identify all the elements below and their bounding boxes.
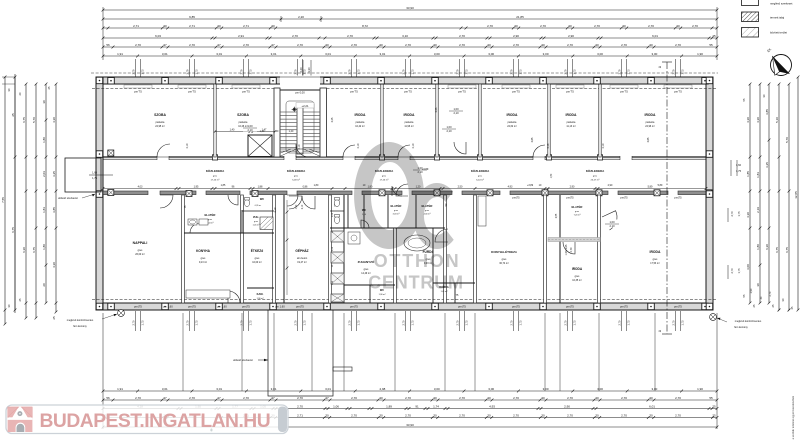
svg-text:3,00: 3,00: [651, 387, 657, 391]
svg-text:pm'75: pm'75: [674, 89, 682, 93]
svg-text:1,75: 1,75: [92, 177, 97, 180]
svg-text:5,70: 5,70: [32, 117, 36, 123]
svg-text:1,40: 1,40: [230, 128, 235, 131]
svg-text:6,75: 6,75: [785, 247, 789, 253]
svg-text:IRODA: IRODA: [404, 113, 415, 117]
svg-text:pm'75: pm'75: [242, 89, 250, 93]
svg-text:20: 20: [42, 283, 46, 287]
svg-text:2,70: 2,70: [570, 247, 573, 252]
svg-text:3,85: 3,85: [647, 137, 650, 142]
svg-text:91: 91: [415, 404, 419, 408]
svg-text:12,85: 12,85: [794, 191, 798, 199]
svg-text:IRODA: IRODA: [355, 113, 366, 117]
svg-text:®: ®: [210, 428, 213, 433]
svg-text:4,03: 4,03: [138, 185, 143, 188]
svg-text:3,01: 3,01: [325, 387, 331, 391]
svg-text:1,85: 1,85: [221, 184, 226, 187]
svg-text:fém kémény: fém kémény: [73, 325, 87, 328]
compass: [771, 55, 792, 76]
left dimension columns: [4, 77, 6, 324]
eaves dashed lines: [92, 88, 717, 90]
svg-text:1,75: 1,75: [357, 320, 361, 326]
svg-text:SZOBA: SZOBA: [154, 113, 166, 117]
svg-text:1,75: 1,75: [573, 320, 577, 326]
columns on outer walls: [108, 78, 115, 85]
svg-text:pm|75: pm|75: [674, 196, 682, 200]
svg-text:ELőTÉR: ELőTÉR: [572, 204, 583, 209]
svg-text:2,10: 2,10: [446, 129, 452, 133]
svg-text:előtető szerkezet: előtető szerkezet: [58, 196, 78, 200]
left entry porch: [65, 158, 101, 192]
svg-text:30: 30: [595, 43, 599, 47]
top wall extension dims: [135, 59, 137, 77]
svg-text:5,70: 5,70: [785, 137, 789, 143]
svg-text:30: 30: [433, 43, 437, 47]
svg-text:2,50: 2,50: [458, 185, 463, 188]
right dimension columns: [749, 84, 751, 303]
svg-text:1,40: 1,40: [289, 130, 294, 133]
svg-text:1,83: 1,83: [756, 172, 760, 178]
svg-text:4,93: 4,93: [489, 404, 495, 408]
svg-text:1,83: 1,83: [42, 207, 46, 213]
svg-text:gres: gres: [502, 258, 507, 261]
svg-text:3,01: 3,01: [162, 387, 168, 391]
svg-text:37: 37: [163, 43, 167, 47]
door arcs middle/bottom: [160, 195, 173, 208]
svg-text:6,01: 6,01: [652, 34, 658, 38]
svg-text:25: 25: [712, 413, 716, 417]
svg-text:termett talaj: termett talaj: [770, 16, 784, 20]
svg-text:4,93: 4,93: [508, 185, 513, 188]
svg-text:2,70: 2,70: [510, 320, 514, 326]
svg-text:30: 30: [541, 43, 545, 47]
svg-text:30: 30: [514, 24, 518, 28]
svg-text:5,10: 5,10: [775, 117, 779, 123]
steel columns on corridor wall: [186, 191, 192, 197]
svg-text:25: 25: [52, 316, 56, 320]
svg-text:3,01: 3,01: [216, 52, 222, 56]
svg-text:pm|75: pm|75: [134, 305, 142, 309]
svg-text:2,79: 2,79: [618, 69, 622, 75]
svg-text:4,30: 4,30: [746, 212, 750, 218]
svg-text:2,70: 2,70: [487, 24, 493, 28]
svg-text:30: 30: [756, 283, 760, 287]
svg-text:3,01: 3,01: [162, 52, 168, 56]
svg-text:2,79: 2,79: [132, 69, 136, 75]
svg-text:meglévő kontízómentes: meglévő kontízómentes: [67, 319, 94, 322]
svg-text:pm'75: pm'75: [512, 89, 520, 93]
svg-text:30: 30: [379, 396, 383, 400]
svg-text:2,70: 2,70: [243, 43, 249, 47]
svg-text:gres: gres: [138, 249, 143, 252]
svg-text:1,36 m²: 1,36 m²: [257, 297, 264, 300]
svg-text:2,90: 2,90: [568, 34, 574, 38]
svg-text:1,75: 1,75: [681, 320, 685, 326]
svg-text:bővített terület: bővített terület: [770, 31, 787, 35]
svg-text:1,40: 1,40: [260, 130, 265, 133]
svg-text:30: 30: [622, 24, 626, 28]
svg-text:11,13 m²: 11,13 m²: [566, 125, 575, 128]
svg-text:IRODA: IRODA: [645, 113, 656, 117]
svg-text:6,30: 6,30: [765, 244, 769, 250]
svg-text:gres: gres: [364, 268, 369, 271]
svg-text:2,70: 2,70: [405, 396, 411, 400]
svg-text:3,00: 3,00: [434, 387, 440, 391]
svg-text:1,75: 1,75: [357, 69, 361, 75]
svg-text:1,00: 1,00: [453, 107, 459, 111]
svg-text:1,75: 1,75: [465, 69, 469, 75]
svg-text:21,85: 21,85: [516, 15, 524, 19]
svg-text:4,30: 4,30: [52, 117, 56, 123]
svg-text:1,06: 1,06: [333, 404, 339, 408]
svg-text:2,10: 2,10: [453, 111, 459, 115]
svg-text:30: 30: [325, 413, 329, 417]
svg-text:meglévő kontízómentes: meglévő kontízómentes: [735, 320, 762, 323]
svg-text:1,00: 1,00: [247, 124, 253, 128]
svg-text:30: 30: [568, 24, 572, 28]
svg-text:17,23 m²: 17,23 m²: [380, 179, 389, 182]
svg-text:2,70: 2,70: [189, 396, 195, 400]
svg-text:37: 37: [325, 396, 329, 400]
svg-text:1,90: 1,90: [697, 387, 703, 391]
svg-text:ÉTKEZő: ÉTKEZő: [251, 248, 263, 253]
svg-text:30: 30: [487, 396, 491, 400]
corridor double door: [289, 196, 302, 209]
svg-text:3,85: 3,85: [765, 109, 769, 115]
svg-text:2,70: 2,70: [648, 24, 654, 28]
svg-text:2,70: 2,70: [402, 320, 406, 326]
svg-text:5,48 m²: 5,48 m²: [292, 179, 300, 182]
svg-text:8,72: 8,72: [362, 24, 368, 28]
svg-text:1,75: 1,75: [627, 69, 631, 75]
svg-text:7,20 m²: 7,20 m²: [574, 214, 581, 217]
svg-text:parketta: parketta: [405, 121, 414, 124]
svg-text:1,88: 1,88: [258, 185, 263, 188]
svg-text:25,27 m²: 25,27 m²: [591, 179, 600, 182]
svg-text:2,79: 2,79: [348, 69, 352, 75]
svg-text:3,30: 3,30: [307, 67, 311, 73]
svg-text:3,85: 3,85: [52, 207, 56, 213]
svg-text:2,70: 2,70: [132, 320, 136, 326]
svg-text:30: 30: [487, 413, 491, 417]
svg-text:2,70: 2,70: [189, 43, 195, 47]
svg-text:1,75: 1,75: [465, 320, 469, 326]
bottom dimension rows: [103, 390, 717, 392]
svg-text:1,75: 1,75: [141, 69, 145, 75]
svg-text:pm|75: pm|75: [458, 305, 466, 309]
svg-text:2,90: 2,90: [513, 34, 519, 38]
svg-text:6,01: 6,01: [649, 404, 655, 408]
svg-text:+2,21: +2,21: [301, 104, 309, 108]
watermark OC: [354, 142, 464, 293]
svg-text:3,00: 3,00: [543, 52, 549, 56]
chimney left: [118, 310, 125, 317]
svg-text:25: 25: [712, 34, 716, 38]
svg-text:GÉPHÁZ: GÉPHÁZ: [295, 248, 308, 253]
svg-text:2,20: 2,20: [299, 67, 303, 73]
svg-text:1,75: 1,75: [141, 320, 145, 326]
top dimension rows: [103, 9, 717, 11]
svg-text:2,10: 2,10: [357, 143, 360, 148]
svg-text:pm|75: pm|75: [188, 305, 196, 309]
svg-text:3,00: 3,00: [488, 387, 494, 391]
svg-text:1,90: 1,90: [697, 52, 703, 56]
svg-text:ELőTÉR: ELőTÉR: [391, 203, 402, 208]
svg-text:1,75: 1,75: [249, 320, 253, 326]
svg-text:30: 30: [487, 43, 491, 47]
svg-text:2,70: 2,70: [459, 396, 465, 400]
svg-text:30: 30: [595, 413, 599, 417]
svg-text:pm|75: pm|75: [566, 196, 574, 200]
building outer walls: [96, 77, 713, 84]
svg-text:3,00: 3,00: [434, 52, 440, 56]
svg-text:4,30 m²: 4,30 m²: [424, 213, 431, 216]
svg-text:pm'75: pm'75: [404, 89, 412, 93]
svg-text:2,98: 2,98: [379, 387, 385, 391]
svg-text:10,35 m²: 10,35 m²: [572, 279, 582, 282]
shaft under szoba2: [248, 135, 272, 157]
svg-text:30: 30: [379, 413, 383, 417]
svg-text:56: 56: [106, 43, 110, 47]
svg-text:gres: gres: [201, 257, 206, 260]
svg-text:WC: WC: [260, 197, 264, 201]
svg-text:3,01: 3,01: [379, 52, 385, 56]
svg-text:sim.beton: sim.beton: [297, 257, 308, 260]
svg-text:6,75: 6,75: [11, 227, 15, 233]
svg-text:2,79: 2,79: [672, 69, 676, 75]
svg-text:6,75: 6,75: [32, 247, 36, 253]
svg-text:3,01: 3,01: [216, 387, 222, 391]
logo bar budapest.ingatlan.hu: [6, 405, 288, 434]
svg-text:2,70: 2,70: [351, 413, 357, 417]
svg-text:pm'75: pm'75: [566, 89, 574, 93]
svg-text:+3,89: +3,89: [527, 184, 534, 187]
svg-text:0,95 m²: 0,95 m²: [255, 204, 262, 207]
door arcs top rooms: [157, 144, 170, 157]
svg-text:1,80: 1,80: [42, 137, 46, 143]
svg-text:10,42 m²: 10,42 m²: [355, 125, 365, 128]
svg-text:30: 30: [433, 396, 437, 400]
svg-text:25: 25: [712, 404, 716, 408]
svg-text:10,00 m²: 10,00 m²: [252, 261, 262, 264]
svg-text:pm'75: pm'75: [188, 89, 196, 93]
svg-text:1,89: 1,89: [386, 404, 392, 408]
svg-text:30: 30: [649, 396, 653, 400]
top row interior walls: [214, 84, 216, 157]
svg-text:6,75: 6,75: [775, 247, 779, 253]
svg-text:30: 30: [217, 24, 221, 28]
svg-text:pm'75: pm'75: [620, 89, 628, 93]
svg-text:2,70: 2,70: [348, 320, 352, 326]
svg-text:pm'75: pm'75: [350, 89, 358, 93]
svg-text:SZOBA: SZOBA: [237, 113, 249, 117]
svg-text:1,60: 1,60: [92, 172, 97, 175]
svg-text:30,74 m²: 30,74 m²: [499, 262, 509, 265]
svg-text:pm|75: pm|75: [242, 305, 250, 309]
svg-text:1,80: 1,80: [551, 173, 553, 178]
svg-text:30: 30: [271, 24, 275, 28]
svg-text:30: 30: [163, 24, 167, 28]
svg-text:30: 30: [379, 43, 383, 47]
svg-text:CENTRUM: CENTRUM: [368, 273, 464, 293]
svg-text:1,75: 1,75: [303, 320, 307, 326]
svg-text:1,75: 1,75: [411, 69, 415, 75]
svg-text:2,79: 2,79: [456, 69, 460, 75]
svg-text:parketta: parketta: [156, 121, 165, 124]
svg-text:OTTHON: OTTHON: [374, 251, 461, 271]
svg-text:1,75: 1,75: [736, 169, 742, 173]
svg-text:2,85: 2,85: [556, 213, 558, 218]
svg-text:22,95 m²: 22,95 m²: [155, 125, 165, 128]
svg-text:ZUH.: ZUH.: [253, 215, 259, 219]
svg-text:2,70: 2,70: [675, 396, 681, 400]
svg-text:3,85: 3,85: [531, 137, 534, 142]
svg-text:2,70: 2,70: [567, 43, 573, 47]
svg-text:2,79: 2,79: [186, 69, 190, 75]
svg-text:2,70: 2,70: [594, 24, 600, 28]
svg-text:parketta: parketta: [239, 121, 248, 124]
svg-text:IRODA: IRODA: [572, 267, 583, 271]
svg-text:1,00+0,65: 1,00+0,65: [565, 244, 568, 255]
svg-text:gres: gres: [575, 211, 579, 213]
svg-text:2,10: 2,10: [547, 143, 550, 148]
svg-text:ELőTÉR: ELőTÉR: [205, 212, 216, 217]
svg-text:KÖZLEKEDő: KÖZLEKEDő: [287, 168, 306, 173]
svg-text:3,25: 3,25: [765, 162, 769, 168]
svg-text:1,80: 1,80: [42, 244, 46, 250]
svg-text:2,70: 2,70: [540, 24, 546, 28]
svg-text:4,30: 4,30: [746, 117, 750, 123]
svg-text:gres: gres: [208, 219, 212, 221]
svg-text:1,75: 1,75: [519, 320, 523, 326]
svg-text:3,01: 3,01: [325, 52, 331, 56]
svg-text:ZUHANYZÓ: ZUHANYZÓ: [358, 259, 375, 264]
svg-text:2,70: 2,70: [621, 43, 627, 47]
svg-text:2,70: 2,70: [135, 396, 141, 400]
svg-text:3,00: 3,00: [597, 387, 603, 391]
svg-text:1,00: 1,00: [609, 220, 615, 224]
bottom canopy: [268, 310, 333, 396]
svg-text:1,91: 1,91: [117, 387, 123, 391]
svg-text:7,55: 7,55: [1, 197, 5, 203]
svg-text:IRODA: IRODA: [507, 113, 518, 117]
svg-text:1,75: 1,75: [627, 320, 631, 326]
svg-text:2,79: 2,79: [564, 69, 568, 75]
svg-text:2,70: 2,70: [135, 43, 141, 47]
svg-text:4,30: 4,30: [52, 262, 56, 268]
svg-text:2,70: 2,70: [675, 413, 681, 417]
svg-text:1,00: 1,00: [446, 125, 452, 129]
svg-text:6,03: 6,03: [155, 34, 161, 38]
svg-text:2,70: 2,70: [672, 320, 676, 326]
svg-text:KAM.: KAM.: [257, 292, 264, 296]
svg-text:NAPPALI: NAPPALI: [133, 241, 148, 245]
svg-text:11,96 m²: 11,96 m²: [404, 125, 413, 128]
svg-text:2,70: 2,70: [297, 396, 303, 400]
svg-text:30: 30: [676, 24, 680, 28]
svg-text:1,45 m²: 1,45 m²: [253, 224, 260, 227]
svg-text:pm 1,60: pm 1,60: [275, 305, 285, 309]
svg-text:3,00: 3,00: [651, 52, 657, 56]
legend: [742, 0, 759, 6]
svg-text:2,70: 2,70: [459, 413, 465, 417]
svg-text:3,00: 3,00: [543, 387, 549, 391]
svg-text:56: 56: [106, 396, 110, 400]
svg-text:IRODA: IRODA: [566, 113, 577, 117]
svg-text:gres: gres: [575, 275, 580, 278]
svg-text:1,75: 1,75: [195, 320, 199, 326]
logo house icon: [8, 407, 33, 432]
svg-text:3,01: 3,01: [271, 387, 277, 391]
svg-text:pm|75: pm|75: [350, 305, 358, 309]
svg-text:2,10: 2,10: [274, 207, 277, 212]
svg-text:2,79: 2,79: [294, 69, 298, 75]
svg-text:3,25: 3,25: [52, 171, 56, 177]
planned wall hatched: [548, 238, 600, 242]
svg-text:2,70: 2,70: [567, 413, 573, 417]
staircase: [280, 76, 320, 86]
svg-text:37: 37: [217, 396, 221, 400]
svg-text:2,70: 2,70: [564, 320, 568, 326]
svg-text:parketta: parketta: [567, 121, 576, 124]
svg-text:2,70: 2,70: [730, 211, 734, 217]
svg-text:2,19: 2,19: [756, 207, 760, 213]
svg-text:meglévő szerkezet: meglévő szerkezet: [770, 2, 793, 6]
svg-text:pm|75: pm|75: [512, 305, 520, 309]
svg-text:26,00 m²: 26,00 m²: [135, 253, 145, 256]
corridor walls: [103, 156, 706, 158]
svg-text:KÖZLEKEDő: KÖZLEKEDő: [471, 168, 490, 173]
svg-text:30: 30: [42, 100, 46, 104]
svg-text:19,47 m²: 19,47 m²: [297, 261, 307, 264]
svg-text:2,70: 2,70: [769, 291, 772, 296]
svg-text:30: 30: [649, 413, 653, 417]
svg-text:33,90: 33,90: [406, 423, 414, 427]
svg-text:KÖZLEKEDő: KÖZLEKEDő: [206, 168, 225, 173]
svg-text:2,10: 2,10: [609, 224, 615, 228]
svg-text:2,70: 2,70: [621, 413, 627, 417]
svg-text:3,00: 3,00: [746, 264, 750, 270]
svg-text:2,70: 2,70: [621, 396, 627, 400]
svg-text:1,75: 1,75: [195, 69, 199, 75]
svg-text:2,70: 2,70: [459, 34, 465, 38]
svg-text:17,25 m²: 17,25 m²: [211, 179, 220, 182]
svg-text:1,91: 1,91: [117, 52, 123, 56]
svg-text:parketta: parketta: [646, 121, 655, 124]
svg-text:gres: gres: [254, 221, 258, 223]
svg-text:a szobák területei együtt keze: a szobák területei együtt kezelendőek: [791, 395, 795, 439]
svg-text:pm|75: pm|75: [512, 196, 520, 200]
svg-text:30: 30: [649, 43, 653, 47]
svg-text:2,70: 2,70: [347, 34, 353, 38]
svg-text:2,70: 2,70: [405, 413, 411, 417]
svg-text:2,90: 2,90: [570, 185, 575, 188]
svg-text:30: 30: [541, 413, 545, 417]
svg-text:BUDAPEST.INGATLAN.HU: BUDAPEST.INGATLAN.HU: [40, 411, 271, 432]
svg-text:37: 37: [271, 396, 275, 400]
svg-text:9,13 m²: 9,13 m²: [199, 261, 207, 264]
svg-text:2,10: 2,10: [602, 143, 605, 148]
bottom extension lines: [102, 313, 104, 429]
svg-text:fém kémény: fém kémény: [734, 326, 748, 329]
svg-text:IRODA: IRODA: [650, 250, 661, 254]
svg-text:1,95: 1,95: [194, 185, 199, 188]
svg-text:1,75: 1,75: [519, 69, 523, 75]
svg-text:1,74: 1,74: [433, 404, 439, 408]
svg-text:55: 55: [709, 43, 713, 47]
svg-text:2,79: 2,79: [240, 69, 244, 75]
svg-text:1,75: 1,75: [681, 69, 685, 75]
